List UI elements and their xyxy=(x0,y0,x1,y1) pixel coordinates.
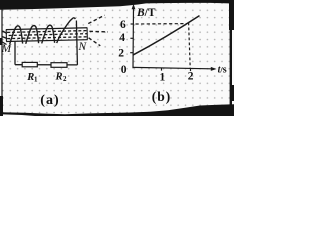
svg-text:0: 0 xyxy=(121,64,127,76)
svg-text:R: R xyxy=(55,72,63,83)
svg-text:M: M xyxy=(1,43,13,55)
svg-text:t/s: t/s xyxy=(218,65,227,76)
svg-text:2: 2 xyxy=(188,71,194,83)
svg-text:1: 1 xyxy=(160,72,166,84)
svg-text:N: N xyxy=(78,41,88,53)
svg-text:(b): (b) xyxy=(152,89,172,104)
svg-text:6: 6 xyxy=(120,19,126,31)
svg-text:2: 2 xyxy=(63,75,67,83)
svg-text:1: 1 xyxy=(34,76,38,84)
svg-text:B/T: B/T xyxy=(136,7,156,19)
svg-text:4: 4 xyxy=(119,32,125,44)
svg-text:(a): (a) xyxy=(40,93,59,108)
svg-text:2: 2 xyxy=(118,48,124,60)
